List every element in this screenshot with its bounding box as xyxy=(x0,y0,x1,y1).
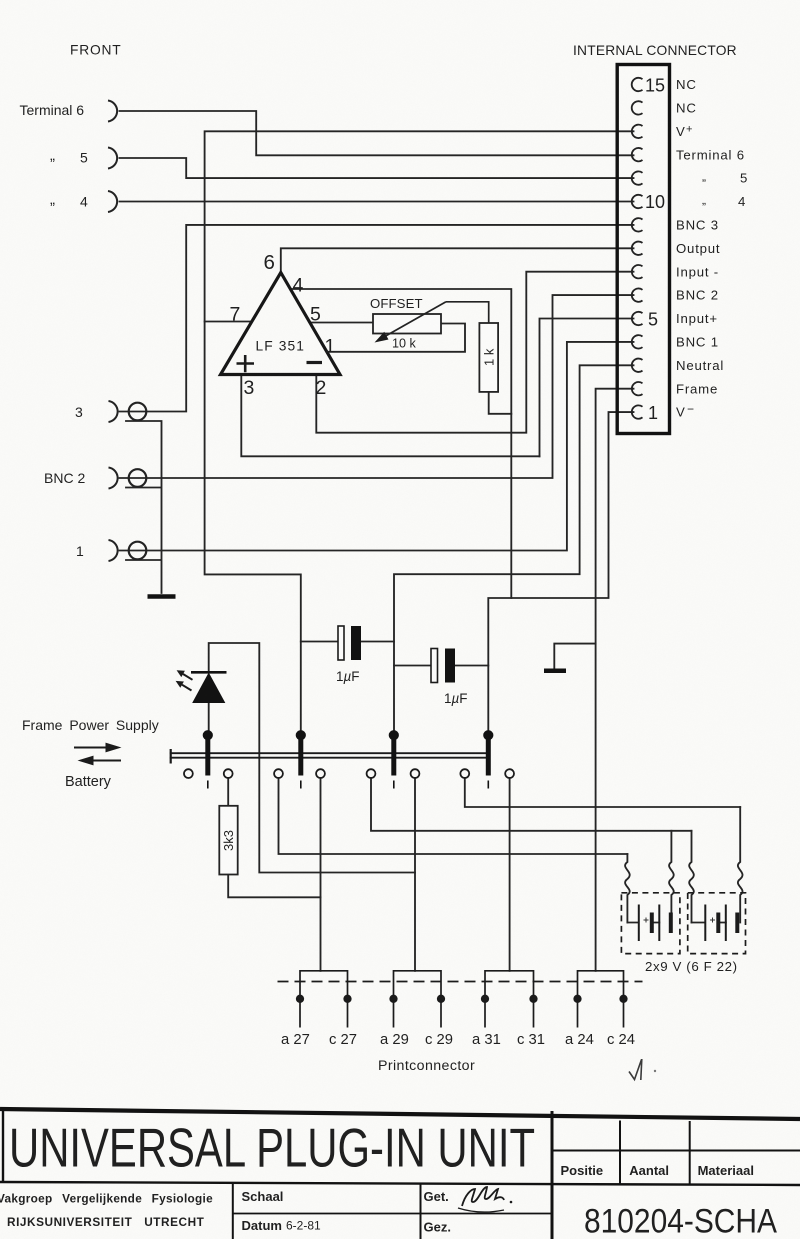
svg-text:„: „ xyxy=(50,191,55,208)
svg-text:Battery: Battery xyxy=(65,774,112,790)
svg-text:7: 7 xyxy=(230,304,241,326)
svg-text:5: 5 xyxy=(310,304,321,326)
svg-text:4: 4 xyxy=(80,194,88,210)
svg-text:6-2-81: 6-2-81 xyxy=(286,1219,321,1233)
svg-text:BNC 2: BNC 2 xyxy=(44,470,85,486)
svg-text:BNC 1: BNC 1 xyxy=(676,335,719,350)
svg-text:Aantal: Aantal xyxy=(629,1163,669,1178)
svg-text:Schaal: Schaal xyxy=(242,1189,284,1204)
svg-text:Terminal 6: Terminal 6 xyxy=(20,102,85,118)
svg-text:1: 1 xyxy=(325,336,336,358)
svg-text:c 24: c 24 xyxy=(607,1032,635,1048)
svg-text:c 31: c 31 xyxy=(517,1032,545,1048)
svg-text:a 27: a 27 xyxy=(281,1032,310,1048)
svg-text:Input -: Input - xyxy=(676,264,719,279)
svg-text:1 k: 1 k xyxy=(482,348,497,366)
svg-text:+: + xyxy=(686,124,693,136)
svg-text:1: 1 xyxy=(76,543,84,559)
svg-text:V: V xyxy=(676,124,686,139)
svg-text:1: 1 xyxy=(648,403,658,423)
svg-text:„: „ xyxy=(702,193,707,207)
svg-text:UNIVERSAL PLUG-IN UNIT: UNIVERSAL PLUG-IN UNIT xyxy=(9,1118,535,1179)
svg-text:V: V xyxy=(676,405,686,420)
svg-text:c 27: c 27 xyxy=(329,1032,357,1048)
svg-text:Gez.: Gez. xyxy=(424,1220,451,1235)
svg-text:NC: NC xyxy=(676,77,697,92)
svg-text:INTERNAL CONNECTOR: INTERNAL CONNECTOR xyxy=(573,43,737,58)
svg-text:Get.: Get. xyxy=(424,1189,449,1204)
svg-text:1µF: 1µF xyxy=(444,691,468,706)
svg-text:Printconnector: Printconnector xyxy=(378,1058,475,1074)
svg-text:Neutral: Neutral xyxy=(676,358,724,373)
svg-text:1µF: 1µF xyxy=(336,669,360,684)
svg-text:RIJKSUNIVERSITEIT UTRECHT: RIJKSUNIVERSITEIT UTRECHT xyxy=(7,1215,205,1229)
svg-text:10: 10 xyxy=(645,192,665,212)
svg-text:c 29: c 29 xyxy=(425,1032,453,1048)
svg-text:Materiaal: Materiaal xyxy=(698,1163,754,1178)
svg-text:2: 2 xyxy=(316,377,327,399)
svg-text:BNC 3: BNC 3 xyxy=(676,218,719,233)
svg-text:Datum: Datum xyxy=(242,1218,282,1233)
svg-text:LF 351: LF 351 xyxy=(256,339,306,354)
svg-text:3: 3 xyxy=(244,377,255,399)
svg-text:OFFSET: OFFSET xyxy=(370,296,423,311)
svg-text:2x9 V (6 F 22): 2x9 V (6 F 22) xyxy=(645,959,738,974)
svg-text:Terminal 6: Terminal 6 xyxy=(676,147,745,162)
svg-text:Positie: Positie xyxy=(561,1163,604,1178)
svg-text:Frame: Frame xyxy=(676,381,718,396)
svg-text:4: 4 xyxy=(293,275,304,297)
svg-text:−: − xyxy=(687,402,695,416)
svg-text:3k3: 3k3 xyxy=(221,830,236,851)
svg-text:Input+: Input+ xyxy=(676,311,718,326)
svg-text:NC: NC xyxy=(676,101,697,116)
svg-text:5: 5 xyxy=(80,150,88,166)
svg-text:3: 3 xyxy=(75,404,83,420)
svg-text:Vakgroep Vergelijkende Fysiolo: Vakgroep Vergelijkende Fysiologie xyxy=(0,1192,213,1206)
svg-text:a 24: a 24 xyxy=(565,1032,594,1048)
svg-text:5: 5 xyxy=(648,309,658,329)
svg-text:FRONT: FRONT xyxy=(70,43,122,58)
svg-text:a 29: a 29 xyxy=(380,1032,409,1048)
svg-text:a 31: a 31 xyxy=(472,1032,501,1048)
svg-text:4: 4 xyxy=(738,194,746,209)
svg-text:„: „ xyxy=(702,170,707,184)
svg-text:BNC 2: BNC 2 xyxy=(676,288,719,303)
svg-text:Output: Output xyxy=(676,241,720,256)
svg-text:810204-SCHA: 810204-SCHA xyxy=(584,1203,777,1239)
svg-text:6: 6 xyxy=(264,251,275,274)
svg-text:„: „ xyxy=(50,147,55,164)
svg-text:Frame Power Supply: Frame Power Supply xyxy=(22,717,159,733)
svg-text:15: 15 xyxy=(645,75,665,95)
svg-text:5: 5 xyxy=(740,171,748,186)
svg-text:10 k: 10 k xyxy=(392,337,417,351)
